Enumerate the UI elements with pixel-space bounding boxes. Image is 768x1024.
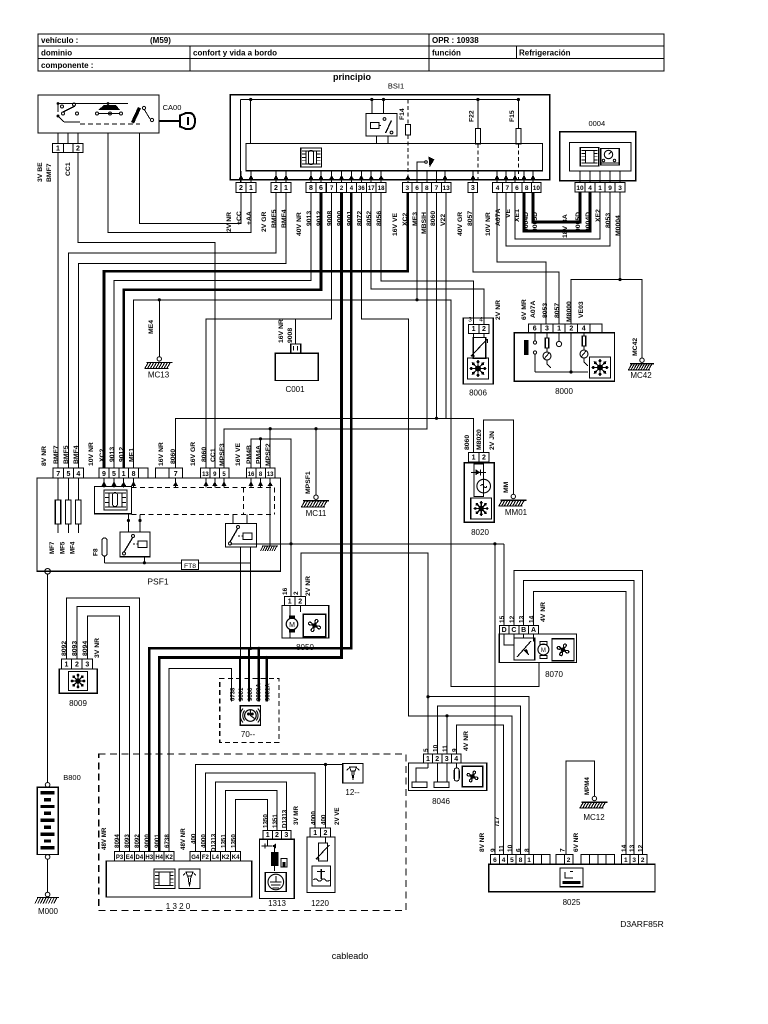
svg-text:0004: 0004 [588, 119, 605, 128]
svg-text:10V NR: 10V NR [485, 212, 492, 236]
svg-text:D: D [502, 627, 507, 634]
svg-text:1: 1 [426, 756, 430, 763]
8006 thermistor [473, 333, 475, 337]
0004 gauge icon [601, 149, 620, 166]
BSI1 outer box [230, 95, 549, 180]
svg-text:4: 4 [588, 185, 592, 192]
svg-text:5: 5 [66, 471, 70, 478]
wire 9008 BSI-C001 [296, 192, 332, 344]
BSI1 relay [366, 114, 397, 137]
CA00 switch 2 [107, 104, 109, 108]
wire 8052 BSI-8006 pin2 [371, 192, 484, 324]
svg-text:M0004: M0004 [615, 215, 622, 236]
svg-text:P3: P3 [116, 855, 124, 861]
svg-text:6V NR: 6V NR [573, 833, 580, 852]
svg-text:8060: 8060 [201, 447, 208, 462]
svg-text:13: 13 [629, 844, 636, 852]
svg-text:3: 3 [545, 326, 549, 333]
wire 9000 (thick) BSI-1320 [149, 192, 351, 851]
wire 9013 BSI-PSF1 [114, 192, 311, 468]
8070 fan icon [552, 639, 574, 661]
8070 pin stubs [504, 634, 514, 645]
svg-text:70--: 70-- [241, 730, 256, 739]
svg-text:8009: 8009 [69, 699, 87, 708]
svg-text:14: 14 [621, 844, 628, 852]
svg-text:2V NR: 2V NR [305, 576, 312, 596]
svg-text:D1313: D1313 [211, 833, 218, 852]
svg-text:8046: 8046 [432, 797, 450, 806]
svg-text:VE03: VE03 [578, 301, 585, 318]
svg-text:BMF4: BMF4 [73, 445, 80, 464]
svg-text:MC42: MC42 [630, 371, 652, 380]
svg-text:D3ARF85R: D3ARF85R [620, 919, 663, 929]
svg-text:M8020: M8020 [476, 429, 483, 450]
0004 pins [575, 183, 585, 193]
svg-text:dominio: dominio [41, 49, 72, 58]
svg-text:principio: principio [333, 72, 372, 82]
svg-text:MC42: MC42 [632, 338, 639, 356]
wire M8020 to MM01 [483, 420, 513, 495]
svg-text:MPM4: MPM4 [584, 777, 591, 795]
8020 snowflake [471, 498, 492, 519]
svg-text:vehículo :: vehículo : [41, 36, 78, 45]
svg-text:12: 12 [638, 844, 645, 852]
wire ME3 from BSI [416, 192, 418, 299]
svg-text:B: B [521, 627, 526, 634]
svg-text:16: 16 [282, 587, 289, 595]
svg-text:K4: K4 [232, 855, 240, 861]
svg-text:ME3: ME3 [412, 212, 419, 226]
svg-text:12--: 12-- [345, 788, 360, 797]
svg-text:8056: 8056 [376, 211, 383, 226]
8006 snowflake [468, 358, 489, 379]
svg-text:18: 18 [378, 186, 385, 192]
svg-text:2V GR: 2V GR [261, 212, 268, 232]
svg-text:F8: F8 [93, 548, 100, 556]
svg-text:1: 1 [472, 455, 476, 462]
svg-text:K2: K2 [165, 855, 173, 861]
svg-text:FT8: FT8 [184, 563, 196, 570]
PSF1 fuse box [37, 478, 281, 571]
svg-text:12: 12 [509, 615, 516, 623]
svg-text:400: 400 [321, 814, 328, 825]
8000 sensor 2 [583, 333, 585, 336]
svg-text:8: 8 [524, 848, 531, 852]
svg-text:A: A [531, 627, 536, 634]
svg-text:ME4: ME4 [148, 320, 155, 334]
svg-text:17: 17 [368, 186, 375, 192]
svg-text:36: 36 [358, 186, 365, 192]
svg-text:6: 6 [515, 185, 519, 192]
BSI internal ME3 contact [417, 162, 425, 171]
svg-text:8: 8 [525, 185, 529, 192]
wire 6738 70---1320 [169, 669, 231, 852]
svg-text:1: 1 [624, 857, 628, 864]
svg-text:E4: E4 [126, 855, 134, 861]
ground MC13 [157, 357, 161, 361]
svg-text:13: 13 [267, 472, 274, 478]
wire 8046 pin1 to 8025 [428, 697, 529, 855]
wire 8050 pin2 to 8046 pin1 [301, 553, 428, 754]
BSI1 inner connector box [246, 144, 543, 171]
ground line G MBSIH/MPSF [224, 192, 427, 468]
svg-text:15: 15 [499, 615, 506, 623]
svg-text:2V VE: 2V VE [334, 807, 341, 825]
header table [38, 34, 664, 71]
wire 8060 line H PSF1-8020 [176, 418, 474, 468]
wire +AA from CA00 [139, 133, 241, 223]
battery B800 [47, 574, 49, 783]
wires 8070 to 8025 right pins [514, 570, 643, 854]
svg-text:8053: 8053 [605, 213, 612, 228]
svg-text:MM: MM [503, 481, 510, 493]
svg-text:1: 1 [598, 185, 602, 192]
svg-text:9: 9 [490, 848, 497, 852]
svg-text:6V MR: 6V MR [521, 299, 528, 320]
svg-text:BMF5: BMF5 [63, 445, 70, 464]
svg-text:OPR : 10938: OPR : 10938 [432, 36, 479, 45]
svg-text:MC13: MC13 [148, 371, 170, 380]
PSF1 battery terminal [45, 569, 51, 575]
svg-text:4V NR: 4V NR [463, 731, 470, 751]
wire 9005D BSI-0004 [533, 192, 580, 222]
svg-text:H3: H3 [145, 855, 153, 861]
svg-text:9013: 9013 [306, 211, 313, 226]
svg-text:16: 16 [248, 472, 255, 478]
BSI1 top bus [241, 99, 519, 101]
svg-text:3: 3 [618, 185, 622, 192]
ground M000 [45, 892, 50, 897]
svg-text:2V NR: 2V NR [226, 212, 233, 232]
svg-text:CC1: CC1 [210, 448, 217, 462]
wire M0000 net [571, 280, 642, 359]
svg-text:CC1: CC1 [65, 162, 72, 176]
svg-text:PM4B: PM4B [246, 445, 253, 464]
svg-text:3V NR: 3V NR [94, 638, 101, 658]
wire 8046 pin4 to 8025 [457, 725, 504, 854]
svg-text:BMF5: BMF5 [271, 209, 278, 228]
svg-text:9001: 9001 [154, 834, 161, 848]
svg-text:1: 1 [288, 598, 292, 605]
0004 IC icon [580, 148, 599, 167]
1313 gauge circle [265, 873, 286, 892]
svg-text:3: 3 [632, 857, 636, 864]
svg-text:8070: 8070 [545, 670, 563, 679]
wire 9001 (thick) BSI-1320 [159, 192, 341, 851]
svg-text:2: 2 [567, 857, 571, 864]
svg-text:5: 5 [510, 857, 514, 864]
svg-text:componente :: componente : [41, 61, 93, 70]
svg-text:2: 2 [275, 832, 279, 839]
svg-text:3: 3 [445, 756, 449, 763]
svg-text:4: 4 [76, 471, 80, 478]
svg-text:7: 7 [174, 471, 178, 478]
svg-text:16V GR: 16V GR [190, 442, 197, 466]
svg-text:H4: H4 [155, 855, 163, 861]
svg-text:2: 2 [435, 756, 439, 763]
wire MPM4 8025-MC12 [566, 761, 594, 854]
svg-text:8060: 8060 [430, 211, 437, 226]
svg-text:4V NR: 4V NR [540, 602, 547, 622]
svg-text:1: 1 [472, 326, 476, 333]
1320 injector icon [179, 869, 200, 889]
svg-text:16V VE: 16V VE [392, 212, 399, 236]
wire relay feed to fans [231, 543, 505, 545]
svg-text:2: 2 [323, 830, 327, 837]
wire ME net: PSF1 ME1 - 8070 motor return [134, 300, 540, 687]
svg-text:5: 5 [112, 471, 116, 478]
wire 8072 BSI-8046-8025 branch [361, 192, 512, 854]
svg-text:2: 2 [569, 326, 573, 333]
wire 8025 pin2-7 riser [568, 853, 570, 855]
svg-text:PM4A: PM4A [256, 445, 263, 464]
svg-text:1: 1 [65, 662, 69, 669]
svg-text:4000: 4000 [311, 811, 318, 825]
wire VE-8053 [506, 192, 610, 246]
wire CC1 CA00-PSF1 [78, 153, 215, 469]
svg-text:9: 9 [452, 748, 459, 752]
svg-text:13: 13 [443, 185, 451, 192]
svg-text:8: 8 [132, 471, 136, 478]
svg-text:48V MR: 48V MR [101, 827, 108, 850]
svg-text:8006: 8006 [469, 389, 487, 398]
svg-text:1: 1 [266, 832, 270, 839]
wire PM4 line [251, 439, 291, 544]
CA00 dashed line [80, 123, 140, 125]
8070 motor [538, 644, 549, 655]
svg-text:F15: F15 [509, 110, 516, 122]
svg-text:MPSF3: MPSF3 [219, 443, 226, 466]
svg-text:8V NR: 8V NR [41, 446, 48, 466]
svg-text:CA00: CA00 [163, 103, 182, 112]
svg-text:8000: 8000 [555, 387, 573, 396]
PSF1 FT8 [182, 560, 199, 569]
ground MM01 [511, 494, 515, 498]
svg-text:4: 4 [496, 185, 500, 192]
svg-text:4: 4 [502, 857, 506, 864]
svg-text:MC11: MC11 [306, 509, 327, 518]
svg-text:2: 2 [75, 662, 79, 669]
svg-text:8057: 8057 [554, 303, 561, 318]
PSF1 relay 2 [225, 524, 256, 547]
svg-text:7: 7 [56, 471, 60, 478]
PSF1 fuses MF7 MF5 MF4 [57, 478, 59, 500]
PSF1 relay 1 [120, 532, 150, 557]
unit 12-- [343, 764, 363, 783]
svg-text:PSF1: PSF1 [147, 577, 169, 587]
svg-text:1: 1 [527, 857, 531, 864]
svg-text:1313: 1313 [268, 899, 286, 908]
svg-text:M8000: M8000 [566, 301, 573, 322]
wire XE1-XE2 [515, 192, 600, 239]
svg-text:M: M [289, 622, 295, 629]
svg-text:8072: 8072 [356, 211, 363, 226]
svg-text:16V NR: 16V NR [158, 442, 165, 466]
8070 module icon [514, 638, 535, 660]
ignition switch CA00 box [38, 95, 159, 133]
svg-text:1 3 2 0: 1 3 2 0 [166, 902, 191, 911]
svg-text:8094: 8094 [114, 834, 121, 848]
svg-text:7: 7 [435, 185, 439, 192]
svg-text:2: 2 [482, 326, 486, 333]
svg-text:6: 6 [319, 185, 323, 192]
svg-text:3: 3 [85, 662, 89, 669]
svg-text:10: 10 [433, 744, 440, 752]
svg-text:2: 2 [239, 185, 243, 192]
wire A07A BSI-8000 [497, 192, 546, 323]
svg-text:9: 9 [102, 471, 106, 478]
svg-text:MPSF2: MPSF2 [265, 443, 272, 466]
svg-text:8094: 8094 [82, 641, 89, 656]
8000 snowflake [590, 357, 611, 378]
wires 1320 to 1313/1220/12-- [195, 765, 342, 852]
svg-text:8060: 8060 [170, 449, 177, 464]
svg-text:Refrigeración: Refrigeración [519, 49, 571, 58]
PSF1 relay1 feeds [127, 515, 129, 532]
svg-text:5: 5 [423, 748, 430, 752]
wire BMF4 BSI-PSF1 [78, 192, 286, 468]
svg-text:+AA: +AA [246, 211, 253, 225]
svg-text:6: 6 [516, 848, 523, 852]
svg-text:1: 1 [56, 145, 60, 152]
svg-text:2V NR: 2V NR [495, 300, 502, 320]
8000 sensor 1 [546, 333, 548, 338]
wire 9012 (thick) BSI-PSF1 [124, 192, 321, 468]
svg-text:(M59): (M59) [150, 36, 171, 45]
svg-text:8053: 8053 [542, 303, 549, 318]
wire 8050 pin1 [290, 544, 292, 597]
svg-text:3: 3 [284, 832, 288, 839]
engine dashed box [99, 754, 406, 910]
BSI1 shunt module [301, 148, 322, 167]
svg-text:2: 2 [293, 591, 300, 595]
key icon [159, 120, 180, 122]
wire 15 to 8070 D [503, 544, 505, 626]
svg-text:A07A: A07A [530, 301, 537, 318]
svg-text:1350: 1350 [263, 814, 270, 828]
svg-text:9008: 9008 [287, 328, 294, 343]
8046 resistors [427, 763, 429, 768]
1220 thermistor [319, 843, 328, 861]
svg-text:ME1: ME1 [129, 448, 136, 462]
svg-text:MF4: MF4 [69, 541, 76, 554]
svg-text:BMF4: BMF4 [281, 209, 288, 228]
svg-text:40V GR: 40V GR [457, 212, 464, 236]
svg-text:MF7: MF7 [49, 541, 56, 554]
svg-text:8020: 8020 [471, 528, 489, 537]
svg-text:2V JN: 2V JN [489, 431, 496, 450]
8000 internal switch [524, 340, 529, 355]
svg-text:8092: 8092 [134, 834, 141, 848]
svg-text:40V NR: 40V NR [296, 212, 303, 236]
svg-text:3V BE: 3V BE [37, 162, 44, 182]
svg-text:1: 1 [284, 185, 288, 192]
svg-text:8: 8 [309, 185, 313, 192]
svg-text:4000: 4000 [201, 834, 208, 848]
svg-text:11: 11 [442, 745, 449, 752]
svg-text:8025: 8025 [563, 898, 581, 907]
svg-text:3V MR: 3V MR [293, 806, 300, 825]
wire 9001A stub [265, 656, 268, 659]
svg-text:10: 10 [576, 185, 584, 192]
svg-text:1: 1 [122, 471, 126, 478]
8020 pressure transducer [477, 479, 491, 493]
svg-text:MPSF1: MPSF1 [305, 471, 312, 494]
svg-text:M: M [541, 648, 546, 654]
svg-text:D1313: D1313 [282, 809, 289, 828]
svg-text:10: 10 [533, 185, 541, 192]
8050 motor [286, 618, 298, 630]
svg-text:M000: M000 [38, 907, 59, 916]
svg-text:48V NR: 48V NR [180, 828, 187, 850]
svg-text:400: 400 [191, 833, 198, 844]
wire 8057 BSI-8000 [473, 192, 559, 323]
wire 8046 pin2 to 8025 [438, 706, 521, 854]
PSF1 inner bus [105, 562, 251, 564]
svg-text:9013: 9013 [109, 447, 116, 462]
wire 9001 drop from PSF1 [239, 571, 241, 657]
8050 fan blades [303, 614, 326, 637]
svg-text:11: 11 [499, 845, 506, 852]
wire V22 BSI to line H [445, 192, 447, 418]
module 70-- dashed box [220, 679, 279, 743]
svg-text:BMF7: BMF7 [53, 445, 60, 464]
svg-text:8V NR: 8V NR [479, 833, 486, 852]
8046 fan icon [462, 766, 482, 786]
svg-text:8050: 8050 [296, 643, 314, 652]
svg-text:2: 2 [482, 455, 486, 462]
svg-text:1: 1 [557, 326, 561, 333]
svg-text:2: 2 [641, 857, 645, 864]
svg-text:C001: C001 [285, 385, 305, 394]
ground MC42 [640, 358, 644, 362]
wire /17 to 8025 [494, 544, 496, 855]
svg-text:16V VE: 16V VE [235, 442, 242, 466]
svg-text:1350: 1350 [231, 834, 238, 848]
svg-text:8060: 8060 [464, 435, 471, 450]
svg-text:C: C [511, 627, 516, 634]
svg-text:2: 2 [274, 185, 278, 192]
svg-text:cableado: cableado [332, 951, 369, 961]
svg-text:K2: K2 [222, 855, 230, 861]
svg-text:9000: 9000 [144, 834, 151, 848]
BSI1 connector pins [236, 182, 246, 192]
svg-text:7: 7 [505, 185, 509, 192]
1220 coolant icon [312, 866, 330, 886]
wire BMF7 CA00-PSF1 [57, 153, 59, 469]
PSF1 pin stubs inside [103, 478, 105, 487]
svg-text:2: 2 [76, 145, 80, 152]
svg-text:13: 13 [519, 615, 526, 623]
ground MC11 [314, 495, 318, 499]
svg-text:8: 8 [519, 857, 523, 864]
wire 8056 BSI-8006 pin1 [381, 192, 473, 324]
svg-text:XC2: XC2 [99, 449, 106, 462]
svg-text:1: 1 [313, 830, 317, 837]
svg-text:XE2: XE2 [595, 209, 602, 222]
svg-text:MC12: MC12 [583, 813, 605, 822]
svg-text:BMF7: BMF7 [46, 163, 53, 182]
svg-text:F2: F2 [202, 855, 210, 861]
svg-text:MF5: MF5 [59, 541, 66, 554]
CA00 switch 1 [57, 104, 59, 113]
svg-text:G4: G4 [191, 855, 200, 861]
wire 9004D BSI-0004 [524, 192, 590, 231]
PSF1 dashed links [132, 486, 275, 488]
svg-text:D4: D4 [136, 855, 144, 861]
svg-text:confort y vida a bordo: confort y vida a bordo [193, 49, 277, 58]
svg-text:L4: L4 [212, 855, 220, 861]
